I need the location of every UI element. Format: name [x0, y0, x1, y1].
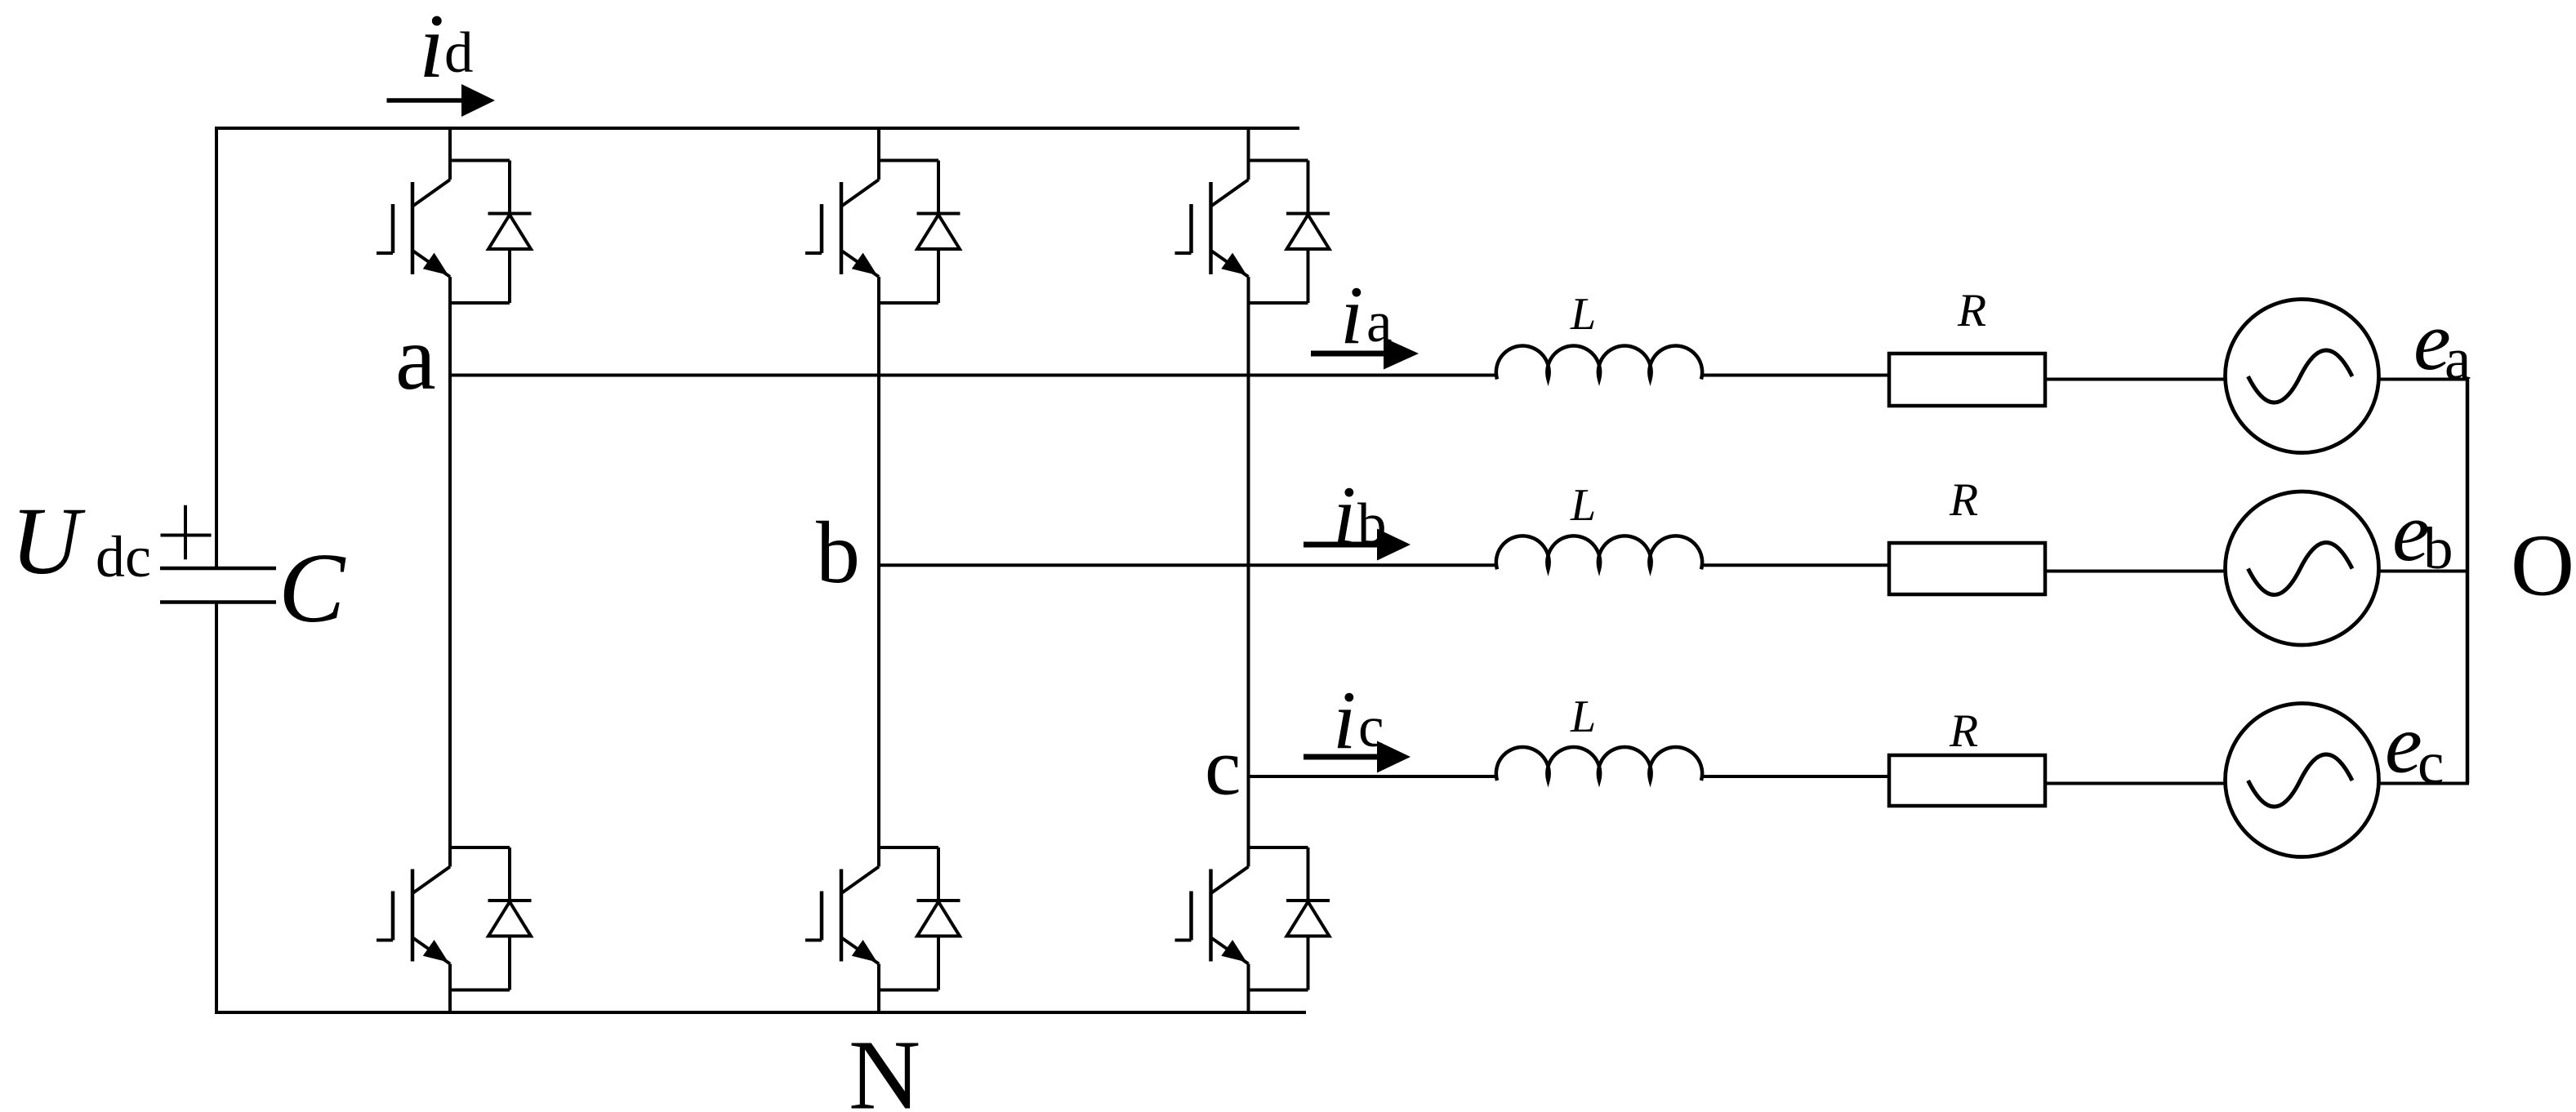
- svg-text:b: b: [816, 505, 860, 602]
- svg-text:i: i: [1333, 469, 1356, 562]
- svg-text:R: R: [1949, 474, 1978, 526]
- svg-text:L: L: [1570, 289, 1596, 340]
- svg-text:a: a: [2445, 326, 2471, 392]
- svg-text:U: U: [11, 487, 86, 594]
- svg-text:b: b: [1357, 492, 1387, 556]
- svg-text:N: N: [849, 1021, 920, 1112]
- svg-text:a: a: [395, 308, 436, 409]
- svg-text:e: e: [2385, 698, 2422, 791]
- svg-text:R: R: [1957, 285, 1986, 336]
- svg-text:i: i: [419, 0, 444, 97]
- svg-text:c: c: [2418, 730, 2444, 796]
- svg-text:i: i: [1333, 674, 1356, 767]
- svg-text:C: C: [279, 533, 346, 643]
- svg-text:L: L: [1570, 692, 1596, 742]
- svg-text:d: d: [444, 21, 474, 85]
- svg-text:O: O: [2511, 518, 2574, 615]
- svg-text:b: b: [2423, 515, 2453, 581]
- svg-text:c: c: [1205, 722, 1241, 812]
- svg-text:R: R: [1949, 705, 1978, 757]
- svg-text:L: L: [1570, 480, 1596, 531]
- svg-text:dc: dc: [96, 524, 151, 589]
- svg-text:i: i: [1340, 269, 1363, 362]
- svg-text:c: c: [1358, 696, 1384, 759]
- svg-text:a: a: [1366, 291, 1393, 354]
